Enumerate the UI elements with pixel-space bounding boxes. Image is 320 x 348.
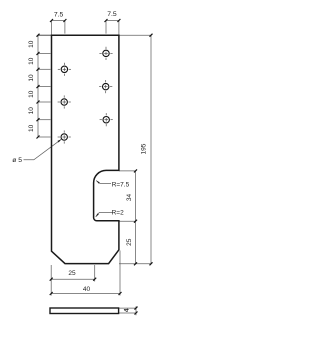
- svg-text:4: 4: [124, 308, 131, 312]
- svg-text:34: 34: [126, 194, 133, 202]
- svg-text:10: 10: [28, 57, 35, 65]
- svg-text:R=2: R=2: [112, 209, 124, 216]
- svg-text:195: 195: [141, 143, 148, 154]
- svg-text:10: 10: [28, 124, 35, 132]
- svg-text:ø 5: ø 5: [12, 157, 22, 164]
- svg-text:10: 10: [28, 74, 35, 82]
- svg-text:10: 10: [28, 40, 35, 48]
- svg-text:10: 10: [28, 107, 35, 115]
- svg-text:25: 25: [68, 270, 76, 277]
- svg-text:40: 40: [83, 286, 91, 293]
- svg-text:R=7.5: R=7.5: [112, 181, 130, 188]
- svg-text:7.5: 7.5: [107, 11, 117, 18]
- svg-text:10: 10: [28, 90, 35, 98]
- svg-text:7.5: 7.5: [54, 11, 64, 18]
- svg-text:25: 25: [126, 238, 133, 246]
